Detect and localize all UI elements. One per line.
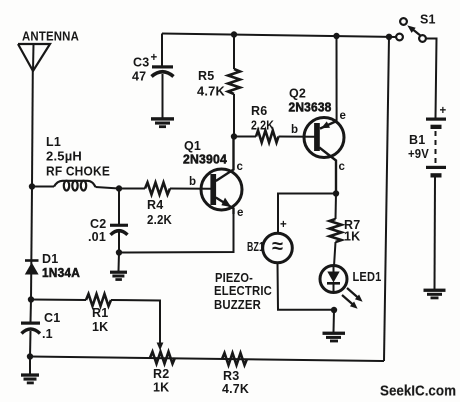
ground (below C3) [151, 117, 174, 128]
wire: junction to ground [118, 253, 121, 272]
svg-text:b: b [189, 176, 196, 188]
wire: R6 to Q2 base [279, 136, 316, 138]
svg-text:R4: R4 [147, 198, 163, 212]
svg-text:R5: R5 [198, 69, 214, 83]
svg-text:+: + [440, 105, 447, 117]
wire: node to ground [29, 357, 31, 375]
svg-text:1K: 1K [344, 230, 360, 244]
svg-text:BUZZER: BUZZER [214, 298, 261, 312]
svg-text:R1: R1 [92, 306, 108, 320]
wire: C1 to bottom rail node [29, 331, 32, 357]
svg-text:ANTENNA: ANTENNA [22, 30, 79, 44]
wire: C3 to ground [162, 74, 164, 118]
switch S1 [396, 18, 426, 42]
R2 wiper arrow [157, 343, 164, 351]
resistor R4 [145, 183, 170, 195]
antenna symbol [18, 44, 50, 71]
node: LED / BZ1 / ground junction [331, 307, 337, 313]
ground (below LED) [323, 332, 346, 343]
svg-text:47: 47 [132, 70, 146, 84]
svg-text:2N3904: 2N3904 [183, 153, 227, 167]
svg-text:2.2K: 2.2K [251, 119, 274, 133]
svg-text:C3: C3 [133, 56, 149, 70]
node: top rail / R5 [231, 31, 237, 37]
capacitor C1 [21, 322, 40, 334]
svg-text:+9V: +9V [408, 147, 429, 161]
wire: junction to BZ1 top [278, 194, 336, 234]
wire: L1 to C2/R4 node [96, 187, 120, 189]
battery B1 [426, 118, 446, 178]
svg-text:C1: C1 [44, 311, 60, 325]
node: R5/R6/Q1-collector junction [231, 133, 237, 139]
svg-text:.01: .01 [88, 230, 106, 244]
svg-text:≈: ≈ [272, 236, 283, 258]
node: D1/C1/R1 junction [28, 296, 34, 302]
ground (left, below C1) [21, 373, 39, 384]
node: top rail / Q2 emitter [333, 33, 339, 39]
svg-text:4.7K: 4.7K [197, 85, 225, 99]
resistor R1 [86, 294, 111, 306]
wire: R7 to LED [334, 242, 336, 266]
svg-text:B1: B1 [409, 133, 425, 147]
resistor R6 [256, 131, 279, 143]
wire: R7 top lead [335, 194, 338, 220]
svg-text:.1: .1 [42, 327, 53, 341]
LED1 light arrows [342, 288, 363, 309]
node: top rail / bottom loop [386, 34, 392, 40]
wire: node to R6 [234, 136, 256, 138]
svg-text:1K: 1K [153, 381, 169, 395]
svg-text:2.5µH: 2.5µH [46, 150, 82, 164]
svg-text:C2: C2 [90, 217, 106, 231]
wire: R4 to Q1 base [170, 188, 211, 190]
wire: Q1 emitter run to C2 node [119, 213, 234, 253]
wire: Q2 emitter rail [336, 36, 338, 121]
svg-text:c: c [237, 161, 244, 173]
ground (below B1) [424, 289, 446, 300]
resistor R7 [330, 219, 342, 242]
wire: R5 top lead [233, 34, 235, 69]
wire: rail to L1 [32, 186, 54, 188]
svg-text:1N34A: 1N34A [42, 266, 80, 280]
resistor R2 (pot) [150, 352, 175, 364]
svg-text:1K: 1K [92, 320, 108, 334]
svg-text:SeekIC.com: SeekIC.com [380, 383, 456, 400]
wire: node to R4 [119, 188, 145, 190]
svg-text:L1: L1 [46, 135, 61, 149]
svg-text:R6: R6 [251, 104, 267, 118]
svg-text:RF CHOKE: RF CHOKE [46, 165, 110, 179]
bottom rail [30, 357, 384, 362]
svg-text:e: e [237, 207, 243, 219]
node: L1/C2/R4 junction [116, 185, 122, 191]
transistor Q1 2N3904 [201, 137, 242, 215]
capacitor C2 [110, 224, 128, 235]
svg-text:2N3638: 2N3638 [289, 101, 332, 115]
node: Q2 collector / BZ1 / R7 junction [333, 190, 339, 196]
wire: battery to ground [434, 178, 437, 290]
wire: junction down to C2 [118, 189, 120, 225]
node: antenna/L1 junction [29, 183, 35, 189]
svg-text:Q2: Q2 [289, 87, 306, 101]
diode D1 1N34A [25, 261, 39, 275]
svg-text:R3: R3 [223, 369, 239, 383]
svg-text:R2: R2 [153, 367, 169, 381]
resistor R3 [222, 353, 247, 365]
node: C2-bottom/Q1-emitter junction [116, 249, 122, 255]
resistor R5 [228, 69, 240, 94]
svg-text:PIEZO-: PIEZO- [215, 271, 253, 285]
wire: R5 bottom lead [233, 94, 235, 137]
transistor Q2 2N3638 [304, 118, 344, 194]
svg-text:BZ1: BZ1 [247, 240, 264, 254]
wire: junction down to C1 [30, 300, 33, 323]
wire: BZ1 bottom to LED node [278, 263, 335, 310]
wire: C2 to emitter junction [118, 232, 120, 253]
svg-text:Q1: Q1 [184, 139, 201, 153]
svg-text:ELECTRIC: ELECTRIC [214, 284, 272, 298]
wire: node to ground [333, 310, 336, 332]
capacitor C3 [152, 65, 174, 76]
svg-text:2.2K: 2.2K [147, 213, 172, 227]
svg-text:+: + [280, 219, 287, 231]
ground (below C2) [110, 271, 127, 281]
wire: S1 to battery [426, 39, 437, 118]
wire: left rail L1 node to D1 node [31, 187, 32, 300]
svg-text:b: b [291, 124, 298, 136]
buzzer BZ1 [263, 233, 293, 263]
LED LED1 [320, 266, 347, 293]
node: bottom-left junction [27, 353, 33, 359]
wire: R1 left lead [31, 299, 86, 302]
top rail [162, 34, 396, 38]
inductor L1 coil [54, 181, 96, 191]
svg-text:S1: S1 [420, 13, 436, 27]
wire: R1 to R2 wiper [111, 300, 160, 345]
svg-text:c: c [339, 161, 346, 173]
svg-text:+: + [151, 52, 158, 64]
svg-text:D1: D1 [42, 252, 58, 266]
svg-text:4.7K: 4.7K [222, 382, 249, 396]
wire: right riser (bottom rail to top rail) [384, 37, 389, 361]
wire: antenna to L1 node [31, 70, 34, 187]
wire: C3 riser [161, 34, 163, 67]
svg-text:e: e [340, 110, 346, 122]
svg-text:LED1: LED1 [353, 270, 382, 284]
